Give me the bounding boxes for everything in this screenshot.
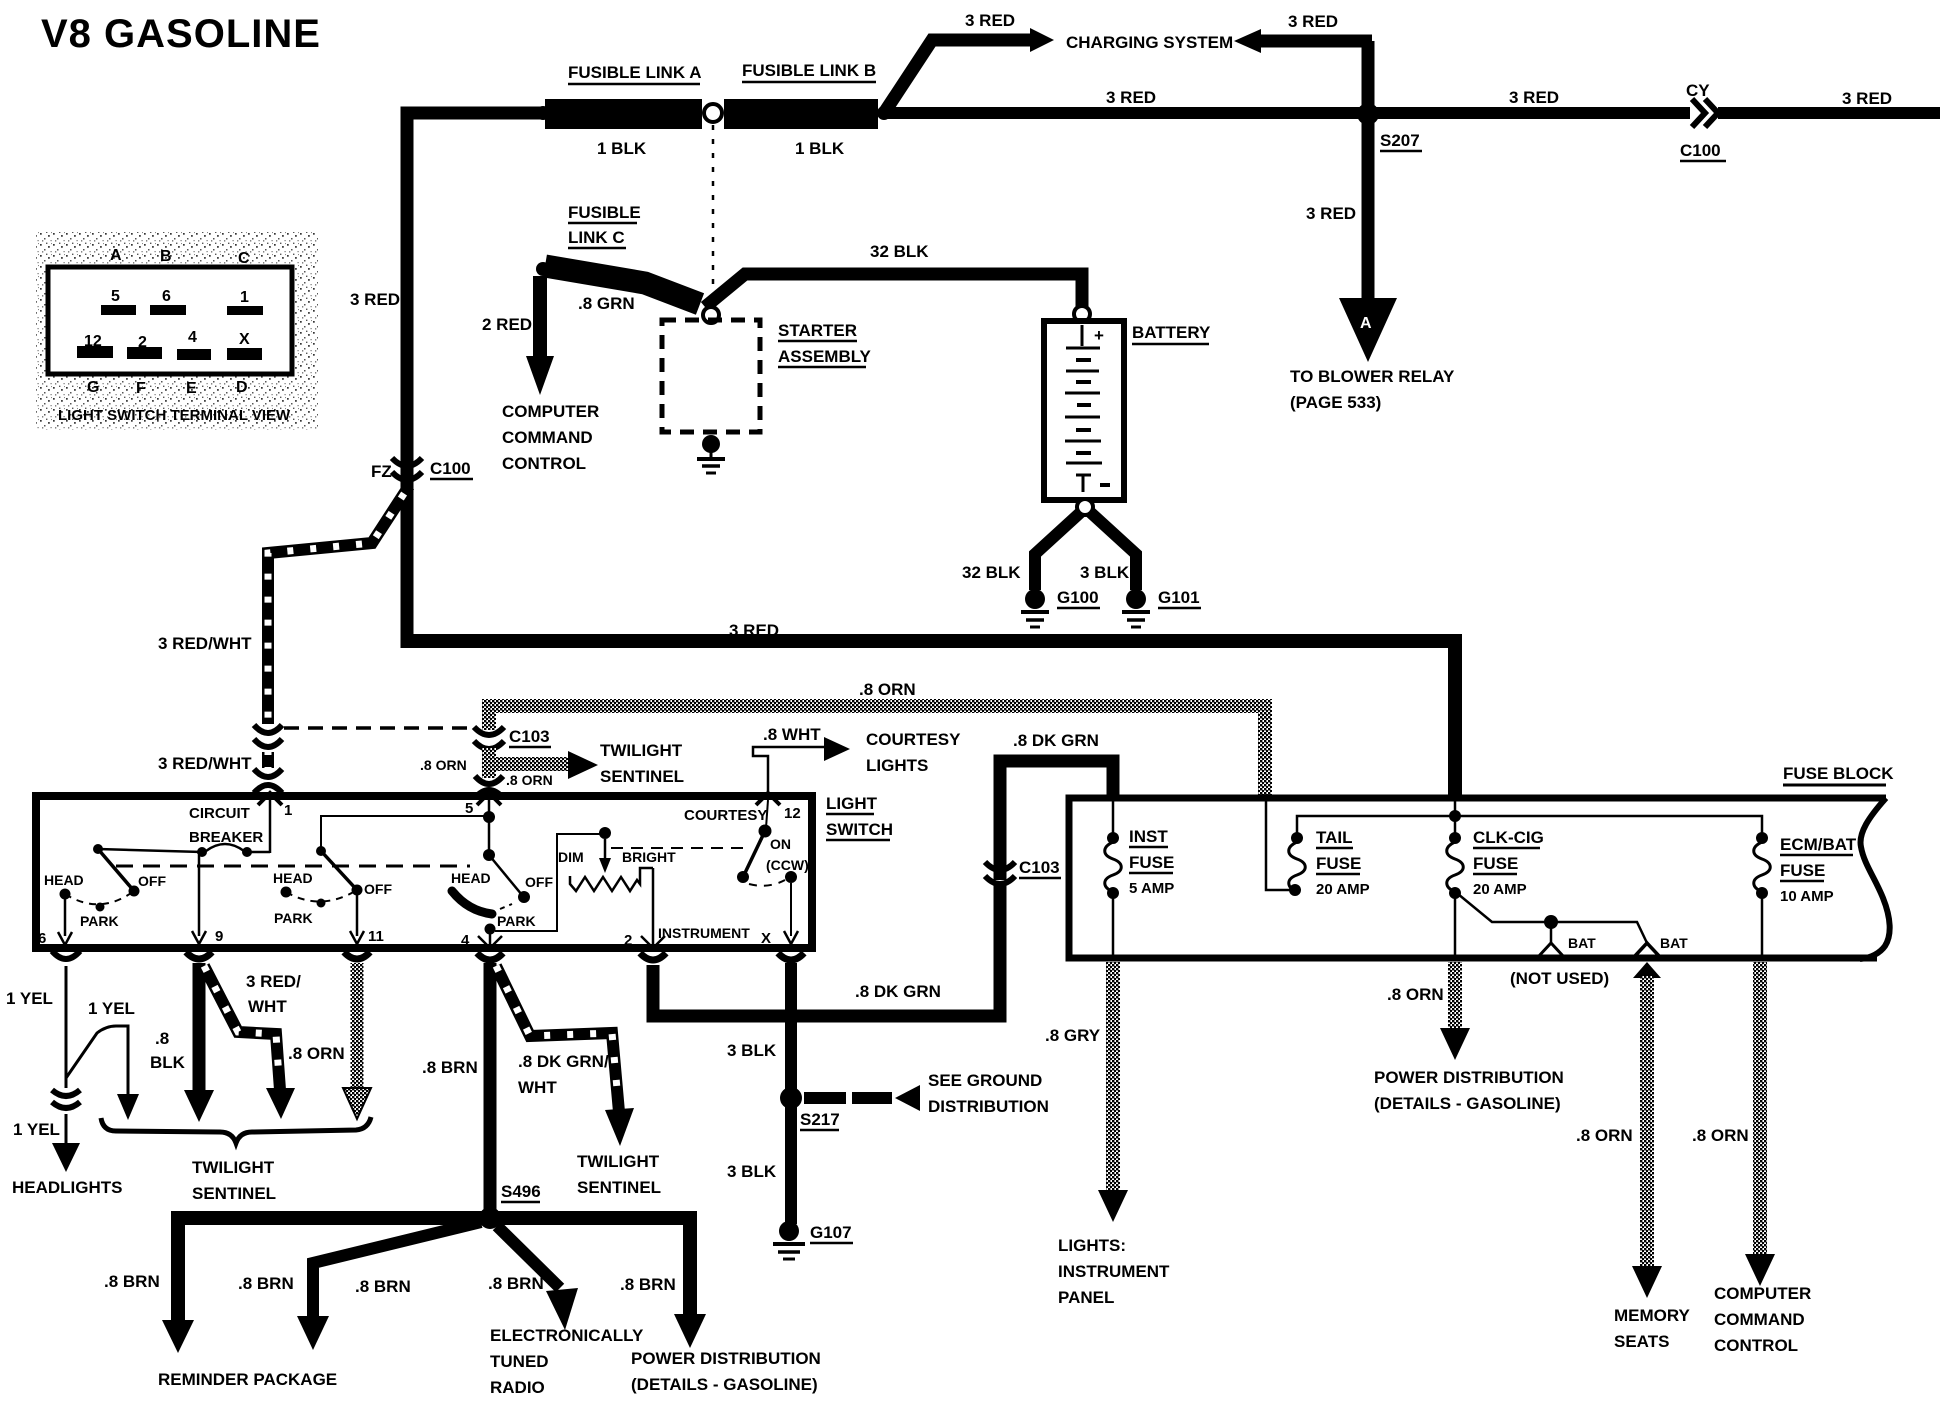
svg-text:SEE GROUND: SEE GROUND [928, 1071, 1042, 1090]
switch 2 feed from pin 5 [321, 816, 489, 851]
svg-text:TAIL: TAIL [1316, 828, 1353, 847]
fuse ECM/BAT 10 AMP [1756, 832, 1768, 844]
3 RED entry lead [1454, 800, 1457, 836]
node S207 [1357, 103, 1379, 125]
svg-text:BRIGHT: BRIGHT [622, 849, 676, 865]
svg-text:BLK: BLK [150, 1053, 186, 1072]
svg-text:INSTRUMENT: INSTRUMENT [1058, 1262, 1170, 1281]
wire 3 BLK down from pin X [785, 963, 797, 1090]
dashed link between links junction and starter [712, 125, 715, 302]
svg-text:LIGHTS:: LIGHTS: [1058, 1236, 1126, 1255]
battery box [1044, 321, 1124, 500]
arrow A to blower relay [1339, 298, 1397, 362]
battery cells [1081, 325, 1084, 346]
svg-text:OFF: OFF [138, 873, 166, 889]
svg-text:HEAD: HEAD [44, 872, 84, 888]
svg-text:BAT: BAT [1660, 935, 1688, 951]
wire .8 ORN gray to memory seats [1640, 976, 1654, 1268]
battery top circle [1074, 306, 1090, 322]
svg-text:9: 9 [215, 928, 223, 945]
svg-text:5 AMP: 5 AMP [1129, 880, 1174, 897]
arrow 1 YEL branch [117, 1094, 139, 1120]
pin 4 lead [489, 929, 492, 950]
ground G101 [1126, 589, 1146, 609]
wire 3 RED down to blower relay [1362, 120, 1375, 300]
svg-text:SENTINEL: SENTINEL [600, 767, 684, 786]
svg-text:SENTINEL: SENTINEL [192, 1184, 276, 1203]
switch 3 wiper [489, 855, 522, 895]
svg-text:FZ: FZ [371, 462, 392, 481]
wire break symbol on 1 YEL [52, 1090, 80, 1096]
svg-text:S496: S496 [501, 1182, 541, 1201]
wire .8 ORN gray from CLK-CIG fuse [1448, 962, 1462, 1030]
svg-text:2 RED: 2 RED [482, 315, 532, 334]
connector bowtie above pin 1 [254, 769, 282, 777]
BAT terminal 2 [1634, 943, 1660, 957]
wire .8 GRY gray from INST fuse [1106, 962, 1120, 1192]
svg-text:A: A [1360, 315, 1372, 332]
dashed line to courtesy switch [611, 847, 748, 849]
pin 2 connector chevron [640, 953, 666, 960]
wire .8 BRN distribution band [178, 1218, 690, 1322]
svg-text:.8 DK GRN: .8 DK GRN [855, 982, 941, 1001]
arrow to twilight sentinel [568, 751, 598, 779]
svg-text:E: E [186, 380, 197, 397]
svg-text:COMMAND: COMMAND [1714, 1310, 1805, 1329]
svg-text:COMPUTER: COMPUTER [502, 402, 599, 421]
memory seats feed arrow up into BAT [1633, 962, 1661, 978]
svg-text:FUSE: FUSE [1129, 853, 1174, 872]
svg-text:X: X [761, 930, 771, 947]
rheostat resistor zigzag [570, 868, 653, 891]
ground G107 [779, 1221, 799, 1241]
svg-text:FUSE: FUSE [1473, 854, 1518, 873]
light switch terminal view connector box [48, 267, 292, 374]
battery minus [1100, 483, 1110, 487]
svg-text:3 RED: 3 RED [729, 621, 779, 640]
wire vertical into S207 [1362, 41, 1375, 115]
svg-text:20 AMP: 20 AMP [1316, 881, 1370, 898]
wire 3 BLK to G101 [1090, 512, 1136, 590]
battery bottom circle [1077, 499, 1093, 515]
svg-text:HEAD: HEAD [273, 870, 313, 886]
svg-text:POWER DISTRIBUTION: POWER DISTRIBUTION [1374, 1068, 1564, 1087]
switch 3 thick crescent lever [452, 891, 492, 914]
node at fusible link B right [877, 106, 891, 120]
wire .8 BRN down from pin 4 to S496 [484, 963, 497, 1212]
svg-text:1 YEL: 1 YEL [6, 989, 53, 1008]
wire .8 ORN gray from ECM/BAT fuse [1753, 962, 1767, 1256]
wire main 3 RED horizontal right [884, 107, 1690, 119]
svg-text:4: 4 [188, 329, 197, 346]
svg-text:3 RED/WHT: 3 RED/WHT [158, 634, 252, 653]
fusible link A [545, 99, 702, 129]
svg-text:DIM: DIM [558, 849, 584, 865]
connector bowtie above pin 5 [475, 776, 503, 784]
connector FZ C100 [392, 458, 422, 466]
wire .8 DK GRN from C103-2 up to fuse block [1000, 761, 1113, 880]
node at fusible link A left [536, 106, 550, 120]
courtesy dashed travel [749, 880, 785, 886]
svg-text:3 RED: 3 RED [1106, 88, 1156, 107]
svg-text:3 BLK: 3 BLK [727, 1162, 777, 1181]
switch 2 wiper [321, 851, 357, 890]
wire 3 RED/WHT striped branch down-left [268, 486, 409, 724]
fusible link C bar [545, 266, 700, 304]
svg-text:(CCW): (CCW) [766, 857, 809, 873]
svg-text:(PAGE 533): (PAGE 533) [1290, 393, 1381, 412]
svg-text:X: X [239, 331, 250, 348]
svg-text:32 BLK: 32 BLK [962, 563, 1021, 582]
pin 5 chevron [477, 793, 501, 805]
switch 1 dashed travel arc [65, 891, 134, 904]
wire 1 YEL branch [66, 1026, 128, 1096]
pin 2 lead [652, 868, 655, 950]
wire 1 YEL down from pin 6 [65, 966, 68, 1088]
svg-text:1 BLK: 1 BLK [597, 139, 647, 158]
internal bus line [1297, 816, 1762, 836]
svg-text:G: G [87, 379, 99, 396]
fuse block outline [1069, 798, 1886, 958]
svg-text:D: D [236, 379, 248, 396]
switch 1 HEAD lead to pin 6 [64, 899, 67, 936]
TAIL fuse feed from .8 ORN entry [1266, 800, 1290, 890]
dashed travel line across switches [116, 865, 470, 868]
wire 3 RED horizontal bus to fuse block [407, 641, 1455, 800]
svg-text:3 RED/WHT: 3 RED/WHT [158, 754, 252, 773]
svg-text:TUNED: TUNED [490, 1352, 549, 1371]
fuse CLK-CIG 20 AMP [1449, 832, 1461, 844]
svg-text:1: 1 [240, 289, 249, 306]
connector C103 lower [985, 862, 1015, 870]
arrow from S207 to charging system [1260, 35, 1372, 48]
wire striped short segment [262, 752, 274, 768]
arrow see ground distribution [895, 1085, 920, 1111]
svg-text:5: 5 [465, 800, 473, 817]
INST fuse lead from .8 DK GRN [1112, 800, 1115, 837]
svg-text:2: 2 [624, 932, 632, 949]
svg-text:6: 6 [38, 930, 46, 947]
wire 3 BLK S217 to G107 [785, 1104, 797, 1224]
svg-text:PARK: PARK [80, 913, 119, 929]
brace for twilight sentinel [101, 1117, 371, 1143]
svg-text:6: 6 [162, 288, 171, 305]
connector pair on striped wire [254, 725, 282, 733]
svg-text:INSTRUMENT: INSTRUMENT [658, 925, 750, 941]
wire .8 ORN gray below C103 [482, 748, 496, 778]
terminal bars row 1 [101, 305, 136, 315]
pin 9 lead [198, 855, 201, 936]
svg-text:C100: C100 [1680, 141, 1721, 160]
svg-text:.8 ORN: .8 ORN [506, 772, 553, 788]
svg-text:FUSIBLE LINK A: FUSIBLE LINK A [568, 63, 701, 82]
switch 2 dashed travel arc [286, 890, 357, 902]
fusible link B [724, 99, 878, 129]
svg-text:ELECTRONICALLY: ELECTRONICALLY [490, 1326, 644, 1345]
svg-text:.8 BRN: .8 BRN [488, 1274, 544, 1293]
svg-text:BAT: BAT [1568, 935, 1596, 951]
svg-text:.8 BRN: .8 BRN [620, 1275, 676, 1294]
svg-text:INST: INST [1129, 827, 1168, 846]
pin 4 connector chevron [477, 953, 503, 960]
wire .8 ORN gray band [489, 706, 1265, 798]
svg-text:C103: C103 [509, 727, 550, 746]
wire 32 BLK from starter to battery [705, 274, 1082, 308]
switch 2 OFF lead to pin 11 [356, 895, 359, 936]
svg-text:TO BLOWER RELAY: TO BLOWER RELAY [1290, 367, 1455, 386]
wire .8 DK GRN from C103-2 down to light switch pin 2 [653, 884, 1000, 1016]
svg-text:HEADLIGHTS: HEADLIGHTS [12, 1178, 123, 1197]
svg-text:OFF: OFF [525, 874, 553, 890]
arrow .8 BRN reminder package [162, 1320, 194, 1353]
ground G100 [1025, 589, 1045, 609]
svg-text:LIGHT: LIGHT [826, 794, 878, 813]
svg-text:3 BLK: 3 BLK [727, 1041, 777, 1060]
svg-text:11: 11 [368, 928, 384, 945]
svg-text:.8 BRN: .8 BRN [422, 1058, 478, 1077]
svg-text:FUSE: FUSE [1780, 861, 1825, 880]
svg-text:WHT: WHT [518, 1078, 557, 1097]
svg-text:HEAD: HEAD [451, 870, 491, 886]
svg-text:CIRCUIT: CIRCUIT [189, 805, 250, 822]
wire 2 RED arrow down to computer command control [533, 276, 547, 358]
svg-text:B: B [160, 248, 172, 265]
node open circle at starter [703, 307, 719, 323]
pin 12 chevron [756, 793, 780, 805]
svg-text:REMINDER PACKAGE: REMINDER PACKAGE [158, 1370, 337, 1389]
svg-text:FUSE: FUSE [1316, 854, 1361, 873]
svg-text:DISTRIBUTION: DISTRIBUTION [928, 1097, 1049, 1116]
svg-text:.8 BRN: .8 BRN [355, 1277, 411, 1296]
svg-text:20 AMP: 20 AMP [1473, 881, 1527, 898]
svg-text:SWITCH: SWITCH [826, 820, 893, 839]
courtesy switch wiper [744, 831, 765, 875]
svg-text:.8 GRY: .8 GRY [1045, 1026, 1101, 1045]
rheostat wiper arrow [604, 839, 607, 860]
svg-text:.8 DK GRN/: .8 DK GRN/ [518, 1052, 609, 1071]
wire .8 DK GRN/WHT striped from pin 4 [496, 966, 619, 1112]
svg-text:LIGHT SWITCH TERMINAL VIEW: LIGHT SWITCH TERMINAL VIEW [58, 407, 291, 424]
svg-text:CONTROL: CONTROL [502, 454, 586, 473]
svg-text:TWILIGHT: TWILIGHT [600, 741, 683, 760]
svg-text:S207: S207 [1380, 131, 1420, 150]
svg-text:S217: S217 [800, 1110, 840, 1129]
svg-text:COMMAND: COMMAND [502, 428, 593, 447]
svg-text:.8 BRN: .8 BRN [238, 1274, 294, 1293]
svg-text:ASSEMBLY: ASSEMBLY [778, 347, 872, 366]
ground below starter assembly [702, 435, 720, 453]
svg-text:.8 DK GRN: .8 DK GRN [1013, 731, 1099, 750]
wire .8 BRN arm 2 [313, 1222, 481, 1318]
svg-text:G100: G100 [1057, 588, 1099, 607]
wire .8 WHT courtesy lights [753, 747, 824, 795]
wire 3 RED vertical left main feed [407, 113, 545, 648]
svg-text:COURTESY: COURTESY [866, 730, 961, 749]
node S496 [479, 1207, 501, 1229]
svg-text:.8 WHT: .8 WHT [763, 725, 821, 744]
fuse TAIL 20 AMP [1291, 832, 1303, 844]
svg-text:SEATS: SEATS [1614, 1332, 1669, 1351]
svg-text:1 YEL: 1 YEL [88, 999, 135, 1018]
svg-text:RADIO: RADIO [490, 1378, 545, 1397]
svg-text:.8 ORN: .8 ORN [859, 680, 916, 699]
svg-text:.8 ORN: .8 ORN [1692, 1126, 1749, 1145]
svg-text:PARK: PARK [274, 910, 313, 926]
svg-text:.8 ORN: .8 ORN [288, 1044, 345, 1063]
wire .8 ORN gray down from pin 11 [351, 963, 364, 1090]
svg-text:.8 GRN: .8 GRN [578, 294, 635, 313]
pin 11 connector chevron [344, 952, 370, 959]
svg-text:ON: ON [770, 836, 791, 852]
dashed link to ground distribution [804, 1092, 846, 1104]
svg-text:G107: G107 [810, 1223, 852, 1242]
svg-text:F: F [136, 380, 146, 397]
svg-text:3 RED: 3 RED [350, 290, 400, 309]
svg-text:C100: C100 [430, 459, 471, 478]
svg-text:COMPUTER: COMPUTER [1714, 1284, 1811, 1303]
svg-text:PARK: PARK [497, 913, 536, 929]
svg-text:V8 GASOLINE: V8 GASOLINE [41, 12, 321, 56]
wire to charging system [884, 40, 1032, 113]
svg-text:CHARGING SYSTEM: CHARGING SYSTEM [1066, 33, 1233, 52]
svg-text:3 RED: 3 RED [1509, 88, 1559, 107]
svg-text:3 RED: 3 RED [965, 11, 1015, 30]
svg-text:FUSIBLE: FUSIBLE [568, 203, 641, 222]
BAT tap from CLK-CIG fuse [1458, 894, 1647, 943]
wire .8 BRN arm to radio [497, 1226, 560, 1288]
courtesy switch pivot [766, 800, 768, 828]
arrow .8 BRN power distribution [674, 1314, 706, 1348]
svg-text:32 BLK: 32 BLK [870, 242, 929, 261]
BAT terminal 1 [1538, 943, 1564, 957]
pin 1 internal lead [269, 800, 272, 853]
svg-text:LIGHTS: LIGHTS [866, 756, 928, 775]
svg-text:COURTESY: COURTESY [684, 807, 767, 824]
svg-text:PANEL: PANEL [1058, 1288, 1114, 1307]
svg-text:12: 12 [784, 805, 801, 822]
svg-text:LINK C: LINK C [568, 228, 625, 247]
svg-text:+: + [1094, 326, 1104, 345]
svg-text:BATTERY: BATTERY [1132, 323, 1211, 342]
wire .8 BLK down from pin 9 [193, 963, 206, 1092]
svg-text:TWILIGHT: TWILIGHT [577, 1152, 660, 1171]
svg-text:.8: .8 [155, 1029, 169, 1048]
light switch box [36, 796, 812, 948]
svg-text:.8 ORN: .8 ORN [1387, 985, 1444, 1004]
connector CY C100 chevrons [1692, 99, 1705, 127]
node at link C left [536, 262, 550, 276]
switch 1 wiper [98, 849, 134, 891]
arrow to charging system [1030, 28, 1054, 52]
svg-text:3 RED/: 3 RED/ [246, 972, 301, 991]
svg-text:OFF: OFF [364, 881, 392, 897]
wire 1 YEL to headlights arrow [65, 1114, 68, 1145]
svg-text:WHT: WHT [248, 997, 287, 1016]
wire 3 RED/WHT striped from pin 9 [204, 966, 280, 1090]
pin X lead [790, 883, 792, 936]
wire .8 ORN gray branch to twilight sentinel [489, 757, 568, 771]
dashed line from striped wire to C103 [284, 726, 477, 730]
switch 1 contact line [98, 849, 202, 852]
svg-text:1: 1 [284, 802, 292, 819]
node open circle between links [704, 104, 722, 122]
svg-text:(DETAILS - GASOLINE): (DETAILS - GASOLINE) [631, 1375, 818, 1394]
pin 5 internal lead [488, 800, 491, 855]
svg-text:4: 4 [461, 932, 470, 949]
svg-text:(NOT USED): (NOT USED) [1510, 969, 1609, 988]
pin X connector chevron [778, 953, 804, 960]
wire 32 BLK to G100 [1035, 512, 1081, 590]
svg-text:5: 5 [111, 288, 120, 305]
node S217 [780, 1087, 802, 1109]
svg-text:C103: C103 [1019, 858, 1060, 877]
svg-text:CY: CY [1686, 81, 1710, 100]
svg-text:ECM/BAT: ECM/BAT [1780, 835, 1857, 854]
pin 9 connector chevron [186, 952, 212, 959]
svg-text:MEMORY: MEMORY [1614, 1306, 1691, 1325]
svg-text:10 AMP: 10 AMP [1780, 888, 1834, 905]
svg-text:3 RED: 3 RED [1288, 12, 1338, 31]
arrow to courtesy lights [824, 737, 850, 761]
svg-text:C: C [238, 250, 250, 267]
svg-text:G101: G101 [1158, 588, 1200, 607]
svg-text:STARTER: STARTER [778, 321, 857, 340]
svg-text:.8 ORN: .8 ORN [1576, 1126, 1633, 1145]
switch 3 park contact [485, 924, 496, 935]
svg-text:TWILIGHT: TWILIGHT [192, 1158, 275, 1177]
svg-text:CONTROL: CONTROL [1714, 1336, 1798, 1355]
rheostat feed loop [495, 834, 600, 931]
svg-text:.8 BRN: .8 BRN [104, 1272, 160, 1291]
starter assembly dashed box [662, 320, 760, 432]
light switch terminal view speckle background [36, 232, 318, 430]
circuit breaker arc [206, 844, 244, 851]
fuse block wavy right edge [1860, 798, 1890, 959]
connector C103 [474, 727, 504, 735]
svg-text:POWER DISTRIBUTION: POWER DISTRIBUTION [631, 1349, 821, 1368]
svg-text:(DETAILS - GASOLINE): (DETAILS - GASOLINE) [1374, 1094, 1561, 1113]
fuse INST 5 AMP [1107, 832, 1119, 844]
pin 6 connector chevron [52, 951, 80, 959]
svg-text:3 RED: 3 RED [1842, 89, 1892, 108]
svg-text:FUSE BLOCK: FUSE BLOCK [1783, 764, 1894, 783]
pin 1 chevron [258, 793, 282, 805]
svg-text:.8 ORN: .8 ORN [420, 757, 467, 773]
svg-text:1 BLK: 1 BLK [795, 139, 845, 158]
svg-text:A: A [110, 247, 122, 264]
svg-text:1 YEL: 1 YEL [13, 1120, 60, 1139]
svg-text:SENTINEL: SENTINEL [577, 1178, 661, 1197]
terminal bars row 2 [77, 346, 113, 358]
svg-text:CLK-CIG: CLK-CIG [1473, 828, 1544, 847]
svg-text:FUSIBLE LINK B: FUSIBLE LINK B [742, 61, 876, 80]
svg-text:3 RED: 3 RED [1306, 204, 1356, 223]
svg-text:3 BLK: 3 BLK [1080, 563, 1130, 582]
